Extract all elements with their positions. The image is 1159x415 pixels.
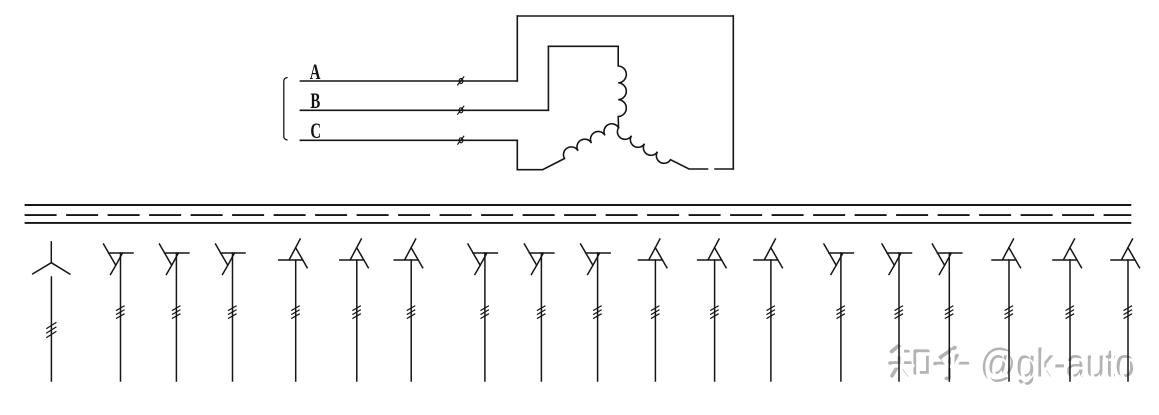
wire outer outline left upper — [516, 16, 518, 81]
feeder F13 3-conductor slash marks — [767, 306, 774, 318]
feeder F7 delta-winding symbol with tap bar — [394, 239, 423, 268]
bus middle dashed line — [25, 214, 1132, 216]
feeder F5 3-conductor slash marks — [292, 306, 299, 318]
feeder F8 3-conductor slash marks — [481, 306, 488, 318]
wire inner step top — [548, 45, 618, 47]
svg-text:@gk-auto: @gk-auto — [983, 344, 1138, 388]
wire inner step vertical — [547, 46, 549, 110]
watermark white emboss copy — [893, 344, 1138, 388]
feeder F16 3-conductor slash marks — [945, 306, 952, 318]
watermark 知乎 @gk-auto (gray layer) — [890, 346, 968, 379]
wire phase A — [300, 80, 517, 82]
feeder F2 3-conductor slash marks — [117, 306, 124, 318]
feeder F10 3-conductor slash marks — [594, 306, 601, 318]
feeder F14 3-conductor slash marks — [837, 306, 844, 318]
feeder F8 star-winding symbol (rotated) with tap bar — [468, 244, 498, 275]
feeder F1 line — [50, 277, 52, 381]
feeder F5 delta-winding symbol with tap bar — [279, 239, 308, 268]
feeder F1 star-winding symbol — [33, 242, 70, 274]
wire outer outline bottom-right segment — [715, 168, 733, 170]
feeder F4 line — [232, 253, 234, 381]
feeder F4 3-conductor slash marks — [229, 306, 236, 318]
feeder F6 line — [356, 260, 358, 381]
conductor mark on phase line at y=140.3 — [458, 136, 464, 144]
feeder F6 3-conductor slash marks — [353, 306, 360, 318]
feeder F12 3-conductor slash marks — [711, 306, 718, 318]
feeder F19 3-conductor slash marks — [1124, 306, 1131, 318]
conductor mark on phase line at y=110.3 — [458, 106, 464, 114]
winding W1 (vertical coil) — [618, 46, 626, 127]
feeder F19 line — [1127, 260, 1129, 381]
feeder F18 line — [1069, 260, 1071, 381]
feeder F11 3-conductor slash marks — [652, 306, 659, 318]
feeder F3 3-conductor slash marks — [173, 306, 180, 318]
wire phase B — [300, 109, 548, 111]
feeder F12 delta-winding symbol with tap bar — [698, 239, 727, 268]
feeder F8 line — [484, 253, 486, 381]
feeder F15 3-conductor slash marks — [895, 306, 902, 318]
svg-text:C: C — [310, 119, 321, 144]
feeder F9 3-conductor slash marks — [538, 306, 545, 318]
feeder F16 line — [948, 253, 950, 381]
feeder F3 line — [175, 253, 177, 381]
bus bottom line — [25, 222, 1132, 224]
wire outer outline right — [732, 16, 734, 169]
winding W2 (left coil) — [517, 124, 618, 170]
winding W3 (right coil) — [617, 128, 707, 169]
bus top line — [25, 204, 1132, 206]
conductor mark on phase line at y=81 — [458, 77, 464, 85]
feeder F19 delta-winding symbol with tap bar — [1111, 239, 1140, 268]
feeder F7 line — [410, 260, 412, 381]
feeder F3 star-winding symbol (rotated) with tap bar — [159, 244, 189, 275]
feeder F10 line — [597, 253, 599, 381]
feeder F5 line — [295, 260, 297, 381]
feeder F2 line — [120, 253, 122, 381]
feeder F11 line — [654, 260, 656, 381]
wire phase C — [300, 139, 517, 141]
feeder F10 star-winding symbol (rotated) with tap bar — [581, 244, 611, 275]
phase bracket — [284, 78, 287, 140]
feeder F9 star-winding symbol (rotated) with tap bar — [524, 244, 554, 275]
feeder F18 3-conductor slash marks — [1066, 306, 1073, 318]
feeder F17 delta-winding symbol with tap bar — [992, 239, 1021, 268]
feeder F13 delta-winding symbol with tap bar — [754, 239, 783, 268]
feeder F15 line — [898, 253, 900, 381]
wire outer outline left lower — [516, 140, 518, 169]
feeder F7 3-conductor slash marks — [407, 306, 414, 318]
feeder F15 star-winding symbol (rotated) with tap bar — [882, 244, 912, 275]
svg-text:B: B — [310, 89, 320, 114]
feeder F9 line — [540, 253, 542, 381]
wire outer outline top — [517, 15, 733, 17]
svg-text:A: A — [310, 60, 321, 85]
feeder F13 line — [770, 260, 772, 381]
feeder F14 star-winding symbol (rotated) with tap bar — [824, 244, 854, 275]
feeder F17 line — [1008, 260, 1010, 381]
feeder F11 delta-winding symbol with tap bar — [638, 239, 667, 268]
feeder F12 line — [714, 260, 716, 381]
feeder F6 delta-winding symbol with tap bar — [340, 239, 369, 268]
feeder F16 star-winding symbol (rotated) with tap bar — [932, 244, 962, 275]
feeder F2 star-winding symbol (rotated) with tap bar — [104, 244, 134, 275]
feeder F4 star-winding symbol (rotated) with tap bar — [216, 244, 246, 275]
feeder F17 3-conductor slash marks — [1005, 306, 1012, 318]
feeder F1 3-conductor slash marks — [47, 323, 56, 338]
feeder F14 line — [840, 253, 842, 381]
feeder F18 delta-winding symbol with tap bar — [1053, 239, 1082, 268]
